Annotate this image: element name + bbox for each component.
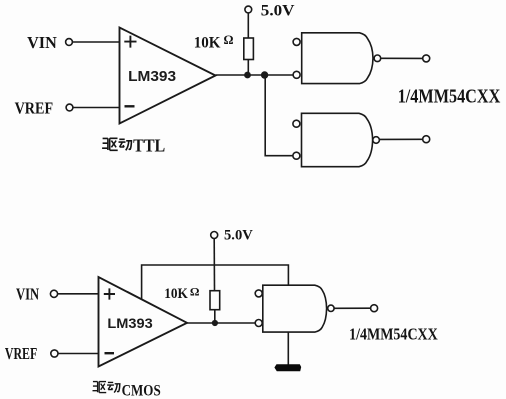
plus sign (+ input U1): [124, 36, 136, 48]
svg-text:VIN: VIN: [16, 284, 40, 303]
terminal VREF (bottom): [51, 350, 58, 357]
feedback wire from op-amp top edge up and right to gate top: [142, 265, 289, 299]
wire VREF to op-amp - input (bottom): [58, 353, 99, 355]
svg-text:10K: 10K: [164, 286, 188, 302]
terminal VIN (top): [66, 39, 73, 46]
wire VREF to op-amp - input: [73, 107, 119, 109]
input bubble G3 top (floating): [255, 290, 262, 297]
terminal 5.0V (bottom): [211, 232, 218, 239]
wire G3 output to terminal: [334, 307, 371, 309]
label 驱动CMOS: [93, 382, 121, 393]
NAND gate G1 (top): [302, 33, 373, 84]
op-amp U1 LM393 (top): [120, 28, 216, 124]
wire VIN to op-amp + input: [72, 41, 119, 43]
wire resistor to node: [247, 60, 249, 76]
label 驱动TTL: [102, 138, 132, 150]
minus sign (- input U2): [105, 352, 115, 354]
hanzi QU (drive) top: [102, 138, 118, 150]
hanzi DONG (move) top: [119, 139, 133, 150]
junction node dot (bottom): [212, 320, 218, 326]
svg-text:1/4MM54CXX: 1/4MM54CXX: [398, 85, 501, 107]
wire G2 output to terminal: [379, 138, 422, 140]
svg-text:Ω: Ω: [224, 33, 234, 47]
junction node dot 1: [244, 72, 251, 79]
svg-text:LM393: LM393: [128, 68, 176, 85]
wire 5.0V to resistor: [247, 13, 249, 38]
input bubble G2 bottom: [293, 152, 300, 159]
input bubble G3 bottom: [255, 320, 262, 327]
input bubble G1 bottom: [293, 71, 300, 78]
terminal VIN (bottom): [50, 290, 57, 297]
NAND gate G2 (top): [302, 113, 373, 166]
NAND gate G3 (bottom): [263, 285, 327, 332]
svg-text:VIN: VIN: [27, 33, 57, 52]
wire gate3 bottom to ground: [287, 332, 289, 364]
hanzi QU (drive) bottom: [93, 382, 107, 393]
input bubble G2 top (floating): [293, 120, 300, 127]
svg-text:VREF: VREF: [5, 344, 37, 363]
wire resistor to output node: [214, 310, 216, 323]
output bubble G2: [373, 137, 380, 144]
svg-text:10K: 10K: [194, 35, 221, 52]
wire op-amp output to gate1 input: [216, 74, 294, 76]
svg-text:5.0V: 5.0V: [224, 228, 253, 244]
terminal G1 output: [423, 55, 430, 62]
svg-text:Ω: Ω: [190, 284, 200, 298]
terminal VREF (top): [66, 104, 73, 111]
hanzi DONG (move) bottom: [107, 382, 120, 392]
terminal G3 output: [371, 305, 378, 312]
svg-text:LM393: LM393: [107, 315, 153, 331]
ground symbol: [274, 364, 301, 371]
svg-text:TTL: TTL: [133, 135, 165, 155]
output bubble G3: [328, 305, 334, 311]
terminal 5.0V (top): [245, 6, 252, 13]
wire VIN to op-amp + input (bottom): [58, 293, 99, 295]
output bubble G1: [374, 55, 381, 62]
junction node dot 2: [261, 71, 268, 78]
resistor R1 10K: [244, 38, 254, 60]
op-amp U2 LM393 (bottom): [99, 277, 188, 367]
input bubble G1 top (floating): [293, 38, 300, 45]
svg-text:CMOS: CMOS: [122, 383, 161, 399]
wire op-amp output to gate3 input: [187, 322, 255, 324]
plus sign (+ input U2): [104, 288, 115, 299]
svg-text:5.0V: 5.0V: [261, 3, 295, 20]
svg-text:VREF: VREF: [15, 98, 54, 117]
wire 5.0V down to resistor (crosses feedback wire): [213, 239, 215, 291]
minus sign (- input U1): [125, 105, 135, 107]
terminal G2 output: [423, 136, 430, 143]
wire node to gate2 input: [265, 75, 293, 156]
svg-text:1/4MM54CXX: 1/4MM54CXX: [349, 325, 438, 344]
wire G1 output to terminal: [381, 57, 423, 59]
resistor R2 10K: [210, 291, 220, 310]
